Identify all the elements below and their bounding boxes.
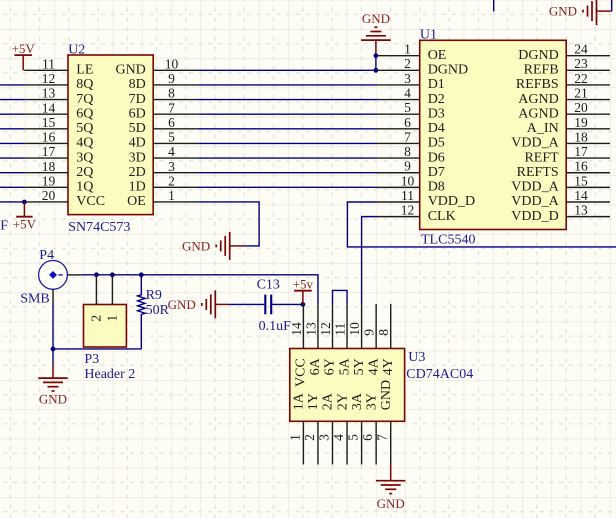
U2 right pin 10 (GND) (115, 56, 197, 77)
GND stem red (375, 40, 377, 56)
power GND above U1 (inverted) (361, 11, 391, 40)
svg-text:VCC: VCC (76, 194, 105, 209)
svg-text:D7: D7 (428, 165, 445, 180)
svg-text:10: 10 (347, 322, 362, 336)
junction bottom wire (51, 347, 56, 352)
U1 left pin 11 (VDD_D) (376, 188, 475, 209)
junction at U1 pin 2 (374, 68, 379, 73)
svg-text:GND: GND (362, 11, 390, 26)
svg-text:6: 6 (360, 434, 375, 441)
svg-text:GND: GND (39, 392, 67, 407)
svg-text:REFTS: REFTS (517, 165, 559, 180)
power GND below SMB (38, 364, 68, 407)
wire to U2 pin 19 from left edge (0, 186, 24, 188)
svg-text:18: 18 (42, 159, 56, 174)
U2 right pin 8 (7D) (129, 86, 198, 107)
svg-text:GND: GND (379, 380, 394, 410)
svg-text:23: 23 (574, 56, 588, 71)
U1 right pin 16 (REFTS) (517, 159, 610, 180)
wire SMB to U3 pin 13 (6A) (82, 275, 318, 304)
wire to U2 pin 17 from left edge (0, 157, 24, 159)
wire to U2 pin 16 from left edge (0, 142, 24, 144)
svg-text:3Q: 3Q (76, 150, 93, 165)
wire to U2 pin 13 from left edge (0, 99, 24, 101)
U2 right pin 3 (2D) (129, 159, 198, 180)
svg-text:4: 4 (168, 144, 175, 159)
U3 bottom pin 4 (2Y) (331, 393, 350, 464)
U2 right pin 9 (8D) (129, 71, 198, 92)
U1 left pin 9 (D7) (376, 159, 445, 180)
U2 right pin 5 (4D) (129, 130, 198, 151)
U3 bottom pin 5 (3A) (346, 392, 365, 464)
U2 left pin 15 (5Q) (24, 115, 93, 136)
svg-text:10: 10 (401, 173, 415, 188)
U3 top pin 13 (6A) (303, 304, 323, 375)
U1 left pin 2 (DGND) (376, 56, 468, 77)
svg-text:5: 5 (168, 130, 175, 145)
U3 bottom pin 7 (GND) (375, 380, 394, 465)
svg-text:U2: U2 (68, 43, 85, 58)
resistor R9 50R (138, 275, 145, 349)
svg-text:20: 20 (42, 188, 56, 203)
svg-text:3: 3 (317, 434, 332, 441)
svg-text:12: 12 (318, 322, 333, 336)
U2 left pin 19 (1Q) (24, 173, 93, 194)
svg-text:U1: U1 (420, 27, 437, 42)
junction R9 top (139, 272, 144, 277)
svg-text:1: 1 (404, 42, 411, 57)
svg-text:15: 15 (42, 115, 56, 130)
svg-text:2Q: 2Q (76, 165, 93, 180)
svg-text:LE: LE (76, 63, 93, 78)
wire to U2 pin 18 from left edge (0, 172, 24, 174)
svg-text:10: 10 (165, 56, 179, 71)
U1 right pin 19 (A_IN) (527, 115, 610, 136)
svg-text:3Y: 3Y (364, 393, 379, 410)
svg-text:20: 20 (574, 100, 588, 115)
U1 right pin 21 (AGND) (518, 85, 610, 106)
svg-text:6Y: 6Y (323, 358, 338, 375)
wire GND to C13 left plate (228, 303, 264, 305)
power GND (sideways) at U2 OE (182, 232, 244, 260)
svg-text:19: 19 (42, 173, 56, 188)
svg-text:D2: D2 (428, 92, 445, 107)
svg-text:DGND: DGND (428, 63, 468, 78)
U2 left pin 20 (VCC) (24, 188, 105, 209)
svg-text:VDD_A: VDD_A (511, 136, 559, 151)
svg-text:5Q: 5Q (76, 121, 93, 136)
U3 bottom pin 1 (1A) (287, 392, 306, 464)
U1 left pin 10 (D8) (376, 173, 445, 194)
svg-text:13: 13 (42, 86, 56, 101)
power +5V below U2 pin 20 (13, 202, 37, 231)
U1 left pin 7 (D5) (376, 129, 445, 150)
U3 top pin 8 (4Y) (376, 304, 396, 375)
svg-text:17: 17 (574, 144, 588, 159)
wire 8D : U2 pin 9 to U1 D1 (197, 84, 376, 86)
U1 right pin 15 (VDD_A) (511, 173, 610, 194)
svg-text:16: 16 (42, 130, 56, 145)
power GND (sideways) left of C13 (168, 290, 229, 318)
svg-text:AGND: AGND (518, 92, 558, 107)
U2 left pin 12 (8Q) (24, 71, 93, 92)
U1 right pin 18 (VDD_A) (511, 129, 610, 150)
U3 top pin 12 (6Y) (318, 304, 338, 375)
svg-text:7: 7 (168, 100, 175, 115)
junction at U1 pin 1 (374, 53, 379, 58)
svg-text:DGND: DGND (518, 48, 558, 63)
wire 2D : U2 pin 3 to U1 D7 (197, 172, 376, 174)
svg-text:D4: D4 (428, 121, 445, 136)
wire stub at top edge (493, 0, 495, 11)
svg-text:5Y: 5Y (352, 358, 367, 375)
svg-text:6D: 6D (129, 106, 146, 121)
svg-text:3: 3 (404, 71, 411, 86)
svg-text:REFBS: REFBS (516, 77, 559, 92)
svg-text:5A: 5A (337, 357, 352, 375)
power +5V at U2 pin 11 (LE) (12, 41, 36, 70)
svg-text:14: 14 (574, 188, 588, 203)
U2 right pin 1 (OE) (127, 188, 197, 209)
svg-text:11: 11 (42, 56, 55, 71)
U1 right pin 22 (REFBS) (516, 71, 610, 92)
power GND (sideways) top right (549, 0, 612, 25)
wire vertical U1 pin1-pin2 to GND port (375, 56, 377, 71)
svg-text:14: 14 (42, 100, 56, 115)
svg-text:24: 24 (574, 42, 588, 57)
svg-text:CLK: CLK (428, 209, 456, 224)
svg-text:6: 6 (168, 115, 175, 130)
U2 right pin 7 (6D) (129, 100, 198, 121)
U2 right pin 2 (1D) (129, 173, 198, 194)
svg-text:12: 12 (401, 203, 415, 218)
U2 left pin 17 (3Q) (24, 144, 93, 165)
U2 left pin 18 (2Q) (24, 159, 93, 180)
svg-text:6: 6 (404, 115, 411, 130)
svg-text:19: 19 (574, 115, 588, 130)
wire to U2 pin 15 from left edge (0, 128, 24, 130)
svg-text:5D: 5D (129, 121, 146, 136)
svg-text:VDD_D: VDD_D (511, 209, 558, 224)
svg-text:13: 13 (574, 203, 588, 218)
U1 left pin 12 (CLK) (376, 203, 456, 224)
U2 left pin 16 (4Q) (24, 130, 93, 151)
svg-text:3: 3 (168, 159, 175, 174)
svg-text:GND: GND (115, 63, 145, 78)
U1 right pin 17 (REFT) (524, 144, 610, 165)
wire VDD_D from U1 pin 11 to right edge (347, 202, 616, 247)
svg-text:1Y: 1Y (306, 393, 321, 410)
svg-text:4A: 4A (366, 357, 381, 375)
svg-text:D5: D5 (428, 136, 445, 151)
svg-text:14: 14 (289, 322, 304, 336)
svg-text:Header 2: Header 2 (84, 367, 135, 382)
U3 bottom pin 3 (2A) (317, 392, 336, 464)
svg-text:P3: P3 (84, 352, 99, 367)
svg-text:7: 7 (375, 434, 390, 441)
junction P3 pin1 (110, 272, 115, 277)
svg-text:REFT: REFT (524, 150, 559, 165)
U1 left pin 8 (D6) (376, 144, 445, 165)
U2 left pin 14 (6Q) (24, 100, 93, 121)
svg-text:TLC5540: TLC5540 (421, 233, 475, 248)
junction P3 pin2 (94, 272, 99, 277)
svg-text:2A: 2A (321, 392, 336, 410)
svg-text:2: 2 (404, 56, 411, 71)
svg-text:11: 11 (332, 323, 347, 336)
U1 right pin 20 (AGND) (518, 100, 610, 121)
svg-text:6Q: 6Q (76, 106, 93, 121)
svg-text:16: 16 (574, 159, 588, 174)
U1 right pin 23 (REFB) (524, 56, 610, 77)
svg-text:D3: D3 (428, 106, 445, 121)
U2 right pin 4 (3D) (129, 144, 198, 165)
wire 7D : U2 pin 8 to U1 D2 (197, 99, 376, 101)
svg-text:1: 1 (106, 315, 121, 322)
svg-text:SN74C573: SN74C573 (68, 220, 130, 235)
svg-text:8: 8 (376, 329, 391, 336)
svg-text:GND: GND (549, 4, 577, 19)
svg-text:15: 15 (574, 173, 588, 188)
wire to U2 pin 20 (VCC) from left edge (0, 201, 24, 203)
svg-text:0.1uF: 0.1uF (0, 219, 8, 234)
U1 left pin 6 (D4) (376, 115, 445, 136)
wire 4D : U2 pin 5 to U1 D5 (197, 142, 376, 144)
svg-text:SMB: SMB (20, 291, 50, 306)
wire stub top right to GND (611, 0, 613, 11)
U2 left pin 13 (7Q) (24, 86, 93, 107)
junction +5v / U3 VCC (301, 302, 306, 307)
U1 left pin 1 (OE) (376, 42, 446, 63)
svg-text:VDD_A: VDD_A (511, 180, 559, 195)
svg-text:GND: GND (377, 496, 405, 511)
U2 left pin 11 (LE) (24, 56, 93, 77)
U3 top pin 14 (VCC) (289, 304, 309, 387)
svg-text:D8: D8 (428, 180, 445, 195)
U2 right pin 6 (5D) (129, 115, 198, 136)
svg-text:3D: 3D (129, 150, 146, 165)
svg-text:REFB: REFB (524, 63, 559, 78)
svg-text:6A: 6A (308, 357, 323, 375)
svg-text:12: 12 (42, 71, 56, 86)
svg-text:CD74AC04: CD74AC04 (406, 367, 473, 382)
U1 left pin 5 (D3) (376, 100, 445, 121)
wire U2 pin1 OE to GND port (197, 202, 259, 246)
svg-text:8: 8 (168, 86, 175, 101)
svg-text:4: 4 (331, 434, 346, 441)
svg-text:11: 11 (401, 188, 414, 203)
wire 3D : U2 pin 4 to U1 D6 (197, 157, 376, 159)
wire 6D : U2 pin 7 to U1 D3 (197, 113, 376, 115)
wire CLK from U1 pin 12 to U3 pin 10 (362, 217, 376, 304)
svg-text:U3: U3 (408, 350, 425, 365)
svg-text:1: 1 (168, 188, 175, 203)
svg-text:9: 9 (362, 329, 377, 336)
svg-text:4D: 4D (129, 136, 146, 151)
wire to U2 pin 12 from left edge (0, 84, 24, 86)
svg-text:8: 8 (404, 144, 411, 159)
U1 right pin 24 (DGND) (518, 42, 610, 63)
svg-text:1A: 1A (292, 392, 307, 410)
svg-text:5: 5 (346, 434, 361, 441)
svg-text:5: 5 (404, 100, 411, 115)
svg-text:21: 21 (574, 85, 588, 100)
svg-text:VCC: VCC (294, 358, 309, 387)
svg-text:8D: 8D (129, 77, 146, 92)
svg-text:P4: P4 (39, 248, 54, 263)
P3 pin 1 (106, 275, 121, 322)
svg-text:1D: 1D (129, 180, 146, 195)
svg-text:D1: D1 (428, 77, 445, 92)
P3 pin 2 (90, 275, 105, 322)
power +5v above U3 pin 14 (293, 277, 314, 305)
wire to U2 pin 14 from left edge (0, 113, 24, 115)
U3 bottom pin 6 (3Y) (360, 393, 379, 464)
svg-text:2: 2 (302, 434, 317, 441)
U1 left pin 4 (D2) (376, 85, 445, 106)
svg-text:4: 4 (404, 85, 411, 100)
power GND below U3 pin 7 (376, 465, 406, 512)
svg-text:4Y: 4Y (381, 358, 396, 375)
svg-text:4Q: 4Q (76, 136, 93, 151)
svg-text:+5V: +5V (13, 216, 37, 231)
svg-text:17: 17 (42, 144, 56, 159)
IC U2 SN74C573 body (68, 55, 153, 215)
svg-text:7D: 7D (129, 92, 146, 107)
svg-text:7Q: 7Q (76, 92, 93, 107)
svg-text:50R: 50R (146, 303, 170, 318)
SMB shield pin down (52, 289, 54, 303)
wire C13 right plate to +5v junction (272, 303, 303, 305)
U1 right pin 14 (VDD_A) (511, 188, 610, 209)
svg-text:A_IN: A_IN (527, 121, 559, 136)
svg-text:2D: 2D (129, 165, 146, 180)
svg-text:GND: GND (182, 239, 210, 254)
svg-text:VDD_A: VDD_A (511, 194, 559, 209)
U3 top pin 11 (5A) (332, 304, 352, 375)
svg-text:9: 9 (168, 71, 175, 86)
svg-text:2Y: 2Y (335, 393, 350, 410)
U3 top pin 10 (5Y) (347, 304, 367, 375)
IC U3 CD74AC04 body (290, 349, 405, 422)
svg-text:18: 18 (574, 129, 588, 144)
svg-text:8Q: 8Q (76, 77, 93, 92)
svg-text:OE: OE (428, 48, 447, 63)
svg-text:3A: 3A (350, 392, 365, 410)
svg-text:1Q: 1Q (76, 180, 93, 195)
svg-text:GND: GND (168, 297, 196, 312)
U1 left pin 3 (D1) (376, 71, 445, 92)
wire bottom SMB to R9 (53, 348, 141, 350)
svg-text:+5v: +5v (293, 277, 314, 292)
svg-text:AGND: AGND (518, 106, 558, 121)
U3 bottom pin 2 (1Y) (302, 393, 321, 464)
svg-text:7: 7 (404, 129, 411, 144)
svg-text:R9: R9 (146, 288, 162, 303)
svg-text:22: 22 (574, 71, 588, 86)
svg-text:OE: OE (127, 194, 146, 209)
wire 1D : U2 pin 2 to U1 D8 (197, 186, 376, 188)
connector P4 SMB (39, 261, 82, 290)
wire 5D : U2 pin 6 to U1 D4 (197, 128, 376, 130)
svg-text:2: 2 (90, 315, 105, 322)
junction at U2 pin 20 (22, 200, 27, 205)
svg-text:9: 9 (404, 159, 411, 174)
svg-text:13: 13 (303, 322, 318, 336)
U1 right pin 13 (VDD_D) (511, 203, 610, 224)
wire to GND below SMB (52, 349, 54, 364)
wire U3 6Y to 5A feedback (333, 290, 348, 304)
wire U2 pin10 GND to U1 DGND vertical (197, 69, 376, 71)
svg-text:D6: D6 (428, 150, 445, 165)
IC U1 TLC5540 body (420, 40, 567, 229)
connector P3 Header 2 body (84, 305, 127, 348)
svg-text:C13: C13 (257, 278, 280, 293)
svg-text:VDD_D: VDD_D (428, 194, 475, 209)
svg-text:2: 2 (168, 173, 175, 188)
svg-text:+5V: +5V (12, 41, 36, 56)
capacitor C13 0.1uF (265, 295, 271, 315)
svg-text:0.1uF: 0.1uF (259, 319, 292, 334)
svg-text:1: 1 (287, 434, 302, 441)
U3 top pin 9 (4A) (362, 304, 382, 375)
wire SMB shield down (52, 304, 54, 349)
